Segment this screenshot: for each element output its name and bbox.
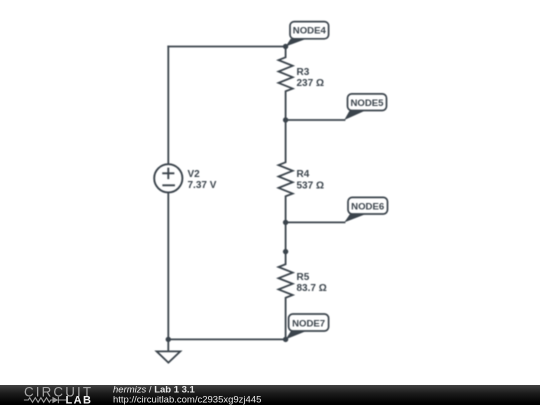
wire top horizontal <box>168 46 285 48</box>
node flag NODE5 <box>344 94 386 120</box>
wire bottom horizontal <box>168 338 285 340</box>
svg-text:LAB: LAB <box>66 395 92 405</box>
wire mid segment <box>285 222 287 251</box>
node flag NODE4 <box>286 22 329 47</box>
node junction dot NODE7 <box>283 337 288 342</box>
wire NODE5 branch <box>286 119 345 121</box>
wire left vertical upper <box>167 47 169 165</box>
node junction dot NODE6 <box>283 220 288 225</box>
resistor R3 <box>279 47 293 121</box>
node junction dot NODE4 <box>283 44 288 49</box>
node flag NODE7 <box>286 314 329 339</box>
node junction dot NODE5 <box>283 117 288 122</box>
footer bar <box>0 385 540 405</box>
wire left vertical lower <box>167 193 169 340</box>
node flag NODE6 <box>344 197 387 222</box>
voltage source V2 <box>154 164 182 192</box>
wire NODE6 branch <box>286 221 345 223</box>
logo diode <box>52 397 58 403</box>
resistor R4 <box>279 120 293 222</box>
svg-text:http://circuitlab.com/c2935xg9: http://circuitlab.com/c2935xg9zj445 <box>113 394 261 405</box>
node junction dot mid <box>283 249 288 254</box>
node junction dot ground <box>166 337 171 342</box>
resistor R5 <box>279 252 293 340</box>
ground <box>157 339 181 362</box>
logo schematic strip <box>24 397 66 403</box>
